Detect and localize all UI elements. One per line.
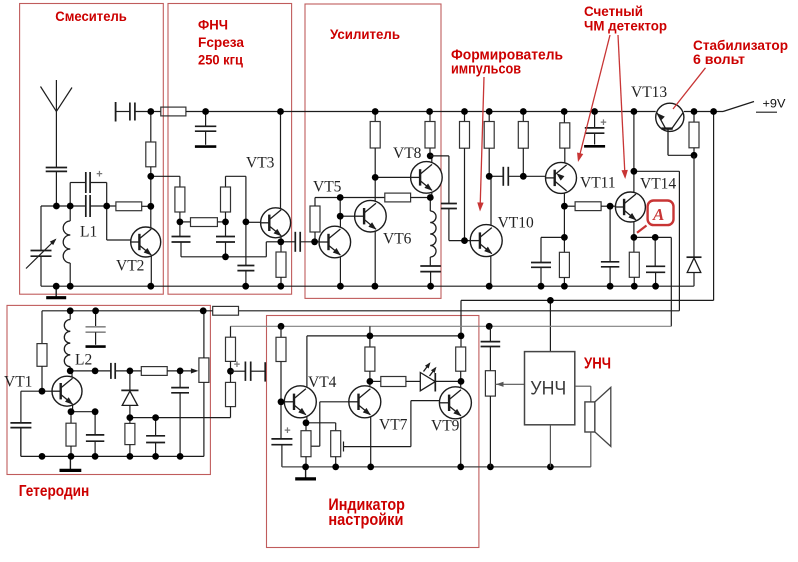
svg-text:VT11: VT11 [580, 175, 616, 192]
svg-text:Fсреза: Fсреза [198, 34, 244, 50]
svg-text:VT14: VT14 [640, 176, 676, 193]
svg-text:A: A [652, 205, 664, 224]
svg-text:6 вольт: 6 вольт [693, 51, 745, 67]
svg-text:Смеситель: Смеситель [55, 8, 127, 24]
svg-text:+: + [284, 425, 290, 437]
svg-text:ФНЧ: ФНЧ [198, 17, 228, 33]
svg-text:250 кгц: 250 кгц [198, 51, 243, 67]
svg-text:УНЧ: УНЧ [584, 356, 611, 373]
svg-text:VT9: VT9 [431, 418, 460, 435]
svg-text:VT7: VT7 [379, 417, 408, 434]
svg-text:ЧМ детектор: ЧМ детектор [584, 18, 667, 34]
svg-text:+: + [96, 169, 102, 181]
svg-text:VT10: VT10 [498, 215, 534, 232]
svg-text:VT6: VT6 [383, 231, 412, 248]
svg-text:настройки: настройки [328, 510, 403, 529]
svg-text:VT8: VT8 [393, 145, 422, 162]
svg-text:импульсов: импульсов [451, 61, 521, 77]
svg-text:VT2: VT2 [116, 258, 144, 275]
svg-text:+9V: +9V [763, 98, 786, 110]
svg-text:Гетеродин: Гетеродин [19, 483, 90, 500]
svg-text:VT3: VT3 [246, 155, 275, 172]
svg-text:VT4: VT4 [308, 374, 337, 391]
svg-text:+: + [600, 117, 606, 129]
svg-text:Усилитель: Усилитель [330, 26, 400, 42]
svg-text:УНЧ: УНЧ [530, 379, 566, 400]
svg-text:VT1: VT1 [4, 374, 32, 391]
svg-text:L2: L2 [75, 352, 92, 369]
svg-text:Счетный: Счетный [584, 3, 643, 19]
svg-text:VT13: VT13 [631, 84, 667, 101]
svg-text:VT5: VT5 [313, 179, 342, 196]
svg-text:L1: L1 [80, 224, 97, 241]
svg-text:+: + [234, 359, 240, 371]
